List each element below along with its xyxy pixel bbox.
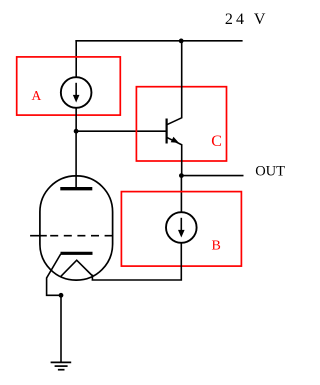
subcircuit box A [17, 57, 121, 115]
junction: rail / collector node [179, 39, 184, 44]
svg-text:A: A [32, 88, 42, 103]
tube heater [61, 260, 93, 276]
wire: current source B to cathode return [92, 243, 181, 280]
wire: +24V supply rail [75, 40, 242, 42]
wire: rail down to current source A [75, 40, 77, 77]
current source A [61, 77, 92, 108]
svg-text:24 V: 24 V [225, 11, 269, 28]
svg-text:OUT: OUT [255, 163, 285, 179]
transistor C emitter [167, 137, 182, 176]
wire: cathode to ground [60, 295, 62, 362]
label C [211, 133, 222, 150]
wire: OUT [181, 175, 243, 177]
current source B [166, 212, 197, 243]
junction: OUT node [179, 173, 184, 178]
subcircuit box B [121, 192, 241, 267]
svg-text:B: B [212, 239, 221, 254]
transistor C collector [167, 41, 182, 125]
ground [51, 362, 72, 369]
tube cathode [47, 253, 93, 295]
subcircuit box C [136, 87, 226, 161]
net OUT label [255, 163, 285, 179]
junction: cathode / ground [59, 293, 64, 298]
wire: OUT node down to current source B [180, 176, 182, 213]
wire: plate node to transistor base [76, 130, 167, 132]
junction: plate node [74, 129, 79, 134]
net 24V label [225, 11, 269, 28]
label A [32, 88, 42, 103]
wire: plate lead into tube [75, 131, 77, 187]
transistor C base bar [166, 119, 168, 144]
svg-text:C: C [211, 133, 222, 150]
wire: current source A to plate node [75, 108, 77, 131]
tube plate [60, 187, 92, 190]
vacuum tube V1 envelope [40, 176, 113, 280]
tube grid [30, 235, 112, 237]
label B [212, 239, 221, 254]
